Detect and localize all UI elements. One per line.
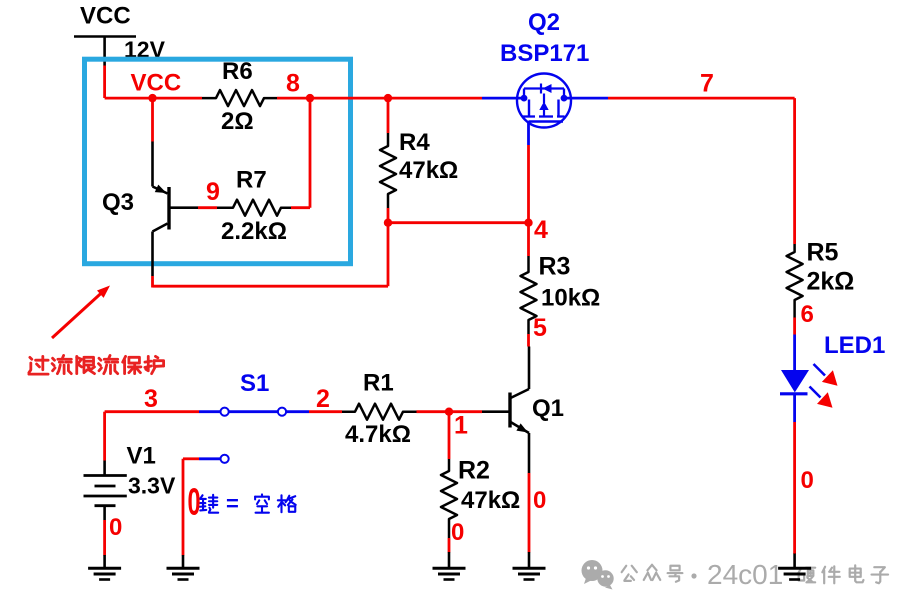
junction R4 bottom dot xyxy=(384,219,392,227)
svg-text:VCC: VCC xyxy=(131,70,182,97)
node 9 label xyxy=(206,178,220,206)
svg-text:0: 0 xyxy=(533,487,546,514)
MOSFET Q2 BSP171 (p-channel) xyxy=(482,74,608,146)
resistor R3 xyxy=(521,256,537,334)
svg-text:BSP171: BSP171 xyxy=(500,40,589,67)
wire R4 top red lead xyxy=(387,98,390,133)
ground for Q1 xyxy=(513,552,546,580)
transistor Q3 (PNP) xyxy=(153,142,199,277)
junction node 4 dot xyxy=(524,219,532,227)
resistor R7 xyxy=(217,200,291,216)
svg-text:2.2kΩ: 2.2kΩ xyxy=(221,218,287,245)
watermark wechat icon xyxy=(582,560,614,590)
Q3 label xyxy=(102,189,134,216)
wire R4 bottom red lead xyxy=(387,208,390,223)
V1 value 3.3V xyxy=(128,473,176,499)
resistor R5 xyxy=(787,244,803,318)
Q2 label xyxy=(528,9,560,36)
annotation text overcurrent protection xyxy=(29,355,164,374)
svg-text:1: 1 xyxy=(454,411,468,439)
node 7 label xyxy=(700,69,714,97)
resistor R6 xyxy=(202,90,277,106)
LED1 emission arrows (red) xyxy=(810,364,838,408)
svg-text:Q3: Q3 xyxy=(102,189,134,216)
wire VCC vertical into box xyxy=(103,66,106,99)
wire net2 xyxy=(309,410,342,413)
svg-text:47kΩ: 47kΩ xyxy=(399,157,458,184)
svg-text:R2: R2 xyxy=(458,456,490,484)
V1 label xyxy=(127,443,156,470)
VCC power symbol xyxy=(74,3,136,66)
svg-text:4: 4 xyxy=(534,216,548,244)
wire net6 xyxy=(793,318,796,335)
Q2 value BSP171 xyxy=(500,40,589,67)
node VCC label (red) xyxy=(131,70,182,97)
R3 value 10k xyxy=(541,285,600,312)
R2 label xyxy=(458,456,490,484)
R7 value 2.2k xyxy=(221,218,287,245)
svg-text:2: 2 xyxy=(316,385,330,413)
R1 value 4.7k xyxy=(345,421,411,448)
R5 label xyxy=(807,238,839,266)
ground for switch throw xyxy=(167,555,200,580)
R4 value 47k xyxy=(399,157,458,184)
svg-text:4.7kΩ: 4.7kΩ xyxy=(345,421,411,448)
svg-text:5: 5 xyxy=(533,314,547,342)
R6 value 2ohm xyxy=(221,108,254,135)
annotation arrow (red) xyxy=(52,286,110,339)
transistor Q1 (NPN) xyxy=(482,347,529,474)
node 0 label at switch (large) xyxy=(188,480,201,523)
svg-text:47kΩ: 47kΩ xyxy=(461,487,520,514)
ground for R2 xyxy=(433,552,466,580)
svg-text:V1: V1 xyxy=(127,443,156,470)
Q1 label xyxy=(532,395,564,422)
R6 label xyxy=(222,58,253,85)
svg-text:3: 3 xyxy=(144,385,158,413)
watermark text xyxy=(622,559,888,590)
R2 value 47k xyxy=(461,487,520,514)
svg-text:9: 9 xyxy=(206,178,220,206)
svg-text:Q1: Q1 xyxy=(532,395,564,422)
svg-text:6: 6 xyxy=(801,301,814,328)
ground for V1 xyxy=(88,555,121,580)
S1 label xyxy=(240,370,269,397)
node 0 label at V1 xyxy=(109,514,122,541)
wire VCC horizontal to R6 xyxy=(105,97,202,100)
resistor R4 xyxy=(380,133,396,208)
svg-text:7: 7 xyxy=(700,69,714,97)
svg-text:S1: S1 xyxy=(240,370,269,397)
R5 value 2k xyxy=(807,267,855,295)
ground for LED xyxy=(778,554,811,580)
R7 label xyxy=(236,167,267,194)
R3 label xyxy=(539,252,571,280)
junction VCC dot xyxy=(148,94,156,102)
svg-text:Q2: Q2 xyxy=(528,9,560,36)
svg-text:0: 0 xyxy=(188,480,201,523)
wire net8 drop to R7 xyxy=(291,98,310,208)
junction node 8 dot xyxy=(306,94,314,102)
svg-text:R4: R4 xyxy=(399,129,430,156)
svg-text:R6: R6 xyxy=(222,58,253,85)
resistor R1 xyxy=(342,404,417,420)
svg-text:24c01: 24c01 xyxy=(707,559,783,590)
protection box (cyan) xyxy=(85,59,351,264)
wire Q2 gate to node 4 xyxy=(527,145,530,223)
svg-text:2kΩ: 2kΩ xyxy=(807,267,855,295)
wire node1 down to R2 xyxy=(448,412,451,459)
node 6 label xyxy=(801,301,814,328)
wire LED to ground xyxy=(793,422,796,554)
wire net9 red segment xyxy=(198,206,217,209)
node 0 label at R2 xyxy=(451,519,464,546)
S1 key legend (blue) xyxy=(200,491,296,516)
resistor R2 xyxy=(441,459,457,538)
wire net7 vertical to R5 xyxy=(793,98,796,244)
R4 label xyxy=(399,129,430,156)
svg-text:2Ω: 2Ω xyxy=(221,108,254,135)
svg-text:10kΩ: 10kΩ xyxy=(541,285,600,312)
node 0 label at LED xyxy=(801,467,814,494)
svg-text:0: 0 xyxy=(109,514,122,541)
node 1 label xyxy=(454,411,468,439)
svg-text:VCC: VCC xyxy=(80,3,131,30)
R1 label xyxy=(363,370,394,397)
svg-text:R3: R3 xyxy=(539,252,571,280)
switch S1 xyxy=(199,408,309,463)
svg-text:R7: R7 xyxy=(236,167,267,194)
wire V1 to net3 corner xyxy=(105,412,199,461)
svg-text:0: 0 xyxy=(451,519,464,546)
LED1 diode xyxy=(780,335,809,423)
wire S1 unused throw to ground xyxy=(183,459,199,556)
wire net1 xyxy=(417,410,483,413)
node 2 label xyxy=(316,385,330,413)
svg-text:8: 8 xyxy=(286,69,300,97)
wire VCC dot down to Q3 emitter xyxy=(151,98,154,141)
wire V1 bottom to ground xyxy=(103,520,106,556)
wire net7 horizontal xyxy=(608,97,795,100)
node 0 label at Q1 xyxy=(533,487,546,514)
wire node4 to R3 xyxy=(527,223,530,256)
node 5 label xyxy=(533,314,547,342)
junction R4 top dot xyxy=(384,94,392,102)
VCC value label 12V xyxy=(124,37,166,63)
node 3 label xyxy=(144,385,158,413)
wire Q1 emitter to ground xyxy=(528,473,531,553)
node 8 label xyxy=(286,69,300,97)
svg-text:0: 0 xyxy=(801,467,814,494)
svg-text:LED1: LED1 xyxy=(824,332,885,359)
node 4 label xyxy=(534,216,548,244)
wire R2 to ground xyxy=(448,538,451,553)
wire net5 xyxy=(527,334,530,347)
battery V1 xyxy=(84,461,127,521)
wire net4 horizontal xyxy=(388,221,529,224)
wire Q3 collector to node4 loop xyxy=(153,223,389,288)
LED1 label xyxy=(824,332,885,359)
svg-text:=: = xyxy=(226,491,239,516)
wire net8 horizontal R6 to Q2 xyxy=(277,97,482,100)
junction node 1 dot xyxy=(445,408,453,416)
svg-text:3.3V: 3.3V xyxy=(128,473,176,499)
svg-text:R5: R5 xyxy=(807,238,839,266)
svg-text:R1: R1 xyxy=(363,370,394,397)
